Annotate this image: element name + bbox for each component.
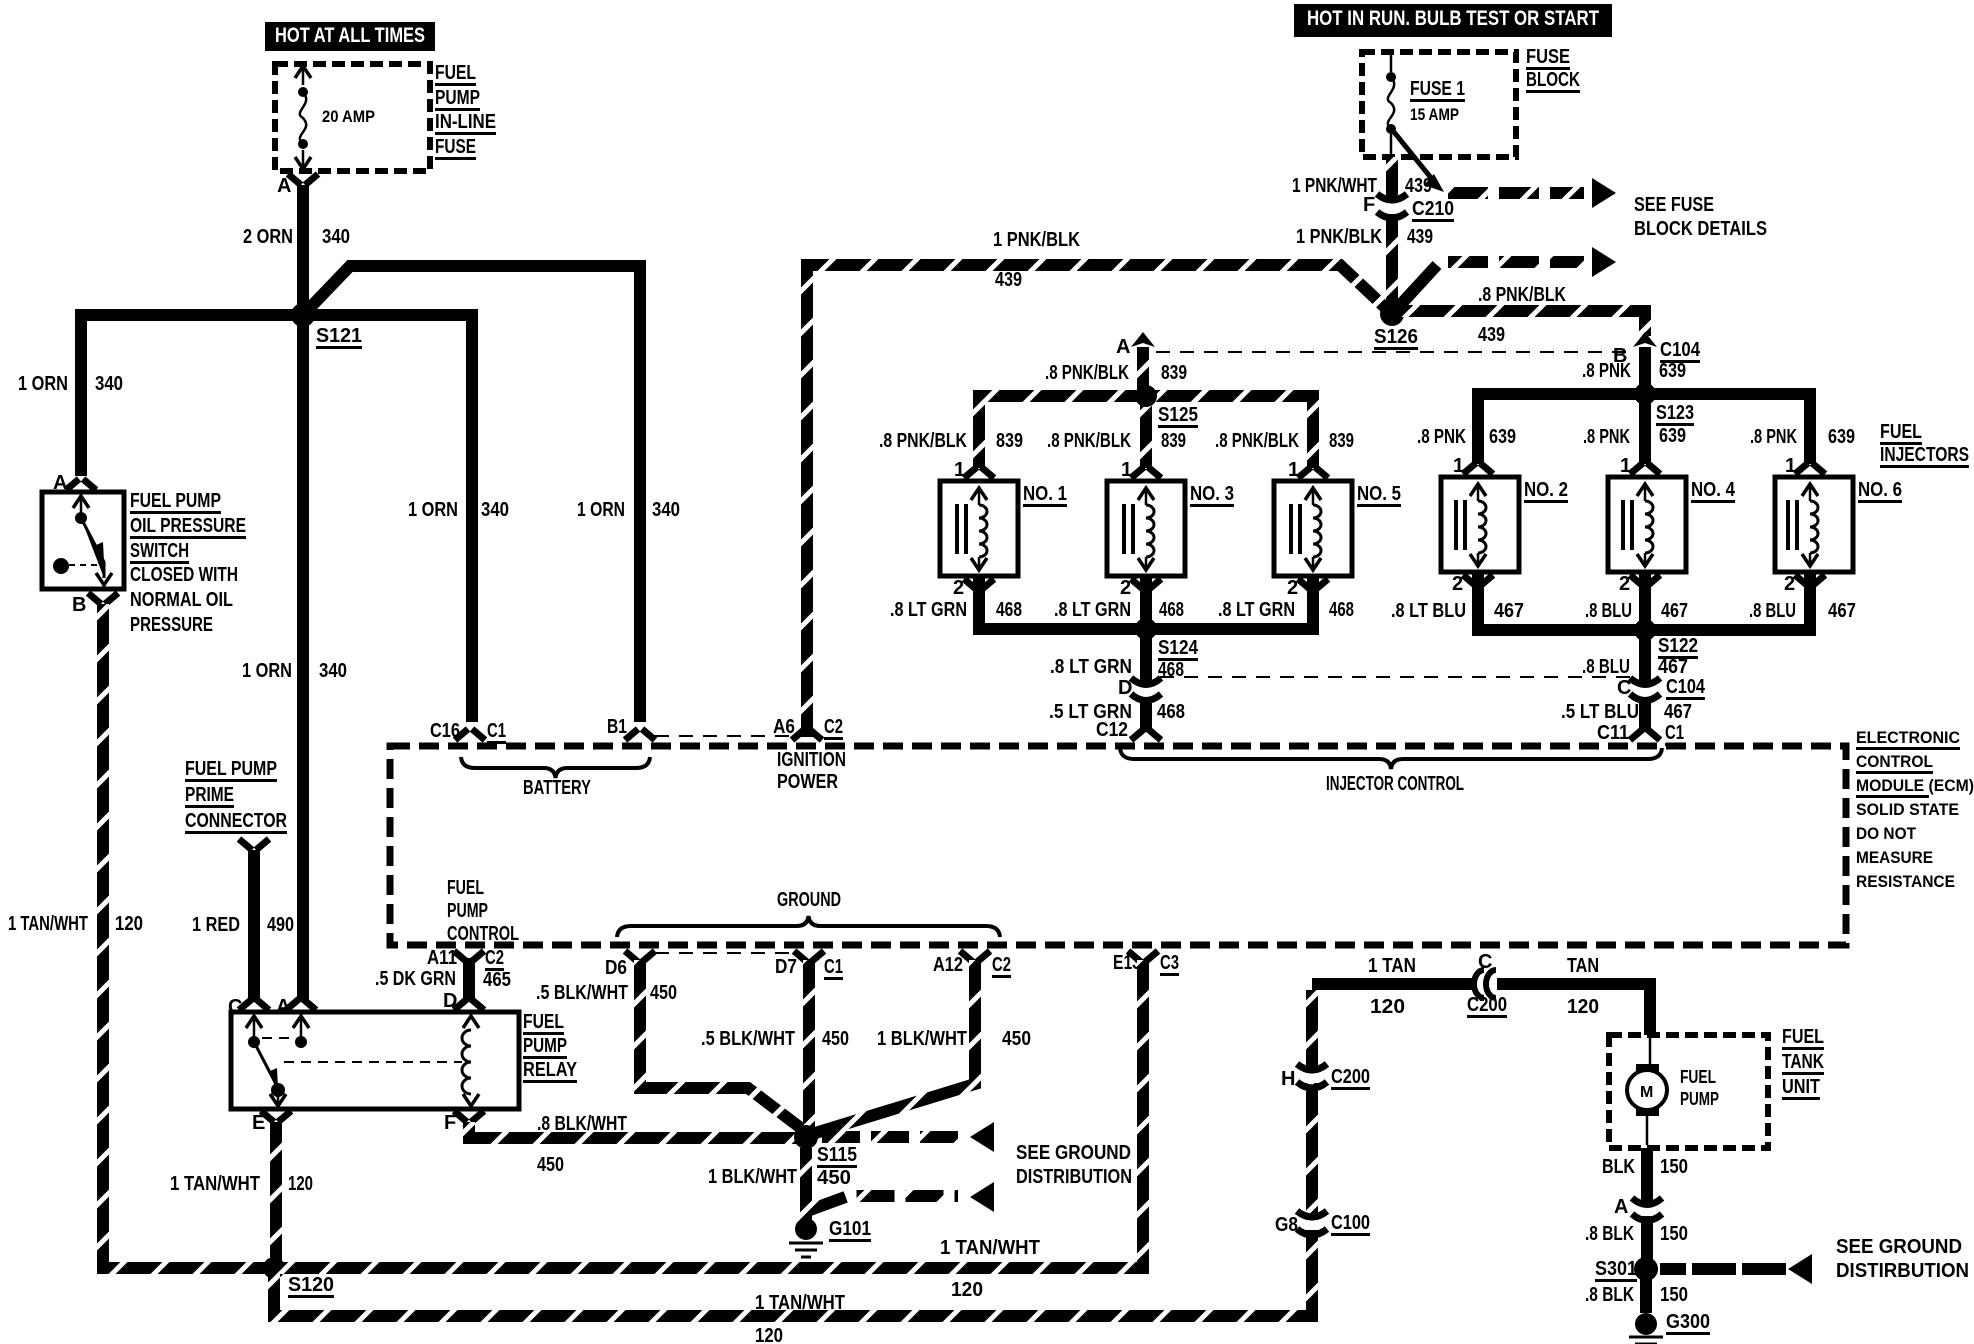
svg-text:.8 PNK/BLK: .8 PNK/BLK	[1047, 430, 1131, 452]
svg-text:FUSE: FUSE	[435, 136, 476, 158]
wire .8 PNK 639 C104 B to S123	[1639, 347, 1651, 394]
connector boundary dash B1-A6	[655, 735, 790, 737]
svg-text:NO. 3: NO. 3	[1190, 483, 1234, 505]
svg-text:C210: C210	[1412, 198, 1454, 220]
svg-text:POWER: POWER	[777, 771, 838, 793]
svg-text:.5 DK GRN: .5 DK GRN	[375, 968, 456, 990]
off-page arrow SEE FUSE BLOCK DETAILS lower	[1448, 256, 1584, 268]
wire .8 BLU S122 down to C104 C	[1639, 630, 1651, 686]
svg-text:A11: A11	[427, 947, 457, 969]
svg-text:1 ORN: 1 ORN	[18, 373, 68, 395]
svg-text:C: C	[1478, 951, 1492, 973]
svg-text:C104: C104	[1660, 339, 1701, 361]
svg-text:G101: G101	[829, 1218, 871, 1240]
svg-text:.8 BLU: .8 BLU	[1582, 656, 1630, 678]
svg-text:1 TAN/WHT: 1 TAN/WHT	[170, 1173, 260, 1195]
svg-text:C2: C2	[824, 716, 843, 738]
svg-text:NO. 1: NO. 1	[1023, 483, 1067, 505]
svg-text:S120: S120	[288, 1274, 334, 1296]
svg-text:1 RED: 1 RED	[192, 914, 240, 936]
svg-text:490: 490	[267, 914, 294, 936]
svg-text:.8 PNK/BLK: .8 PNK/BLK	[879, 430, 967, 452]
svg-text:2: 2	[953, 577, 964, 599]
svg-text:120: 120	[755, 1325, 783, 1344]
wire 1 ORN 340 S121 to B1	[303, 266, 640, 722]
svg-text:A: A	[1116, 336, 1130, 358]
svg-text:B: B	[72, 594, 86, 616]
svg-text:D6: D6	[605, 957, 627, 979]
fuel injector NO2 internals	[1456, 500, 1465, 550]
svg-text:FUEL: FUEL	[447, 877, 484, 899]
connector C104 dashed boundary	[1156, 351, 1632, 353]
wire 1 ORN 340 S121 to C16	[303, 315, 472, 722]
wire .8 PNK/BLK 439 S126 right to C104 B	[1392, 311, 1645, 336]
svg-text:SEE GROUND: SEE GROUND	[1016, 1142, 1131, 1164]
svg-text:NO. 6: NO. 6	[1858, 479, 1902, 501]
svg-text:1: 1	[1288, 459, 1299, 481]
svg-text:M: M	[1640, 1084, 1653, 1101]
svg-text:.8 BLK: .8 BLK	[1585, 1223, 1634, 1245]
svg-text:A12: A12	[933, 954, 963, 976]
brace GROUND	[617, 916, 1000, 937]
fuel injector NO3 internals	[1124, 504, 1133, 554]
svg-text:RELAY: RELAY	[523, 1059, 578, 1081]
svg-text:DISTRIBUTION: DISTRIBUTION	[1016, 1166, 1132, 1188]
svg-text:TANK: TANK	[1782, 1051, 1824, 1073]
wire .5 LT GRN 468 to ECM C12	[1140, 702, 1152, 732]
svg-text:MEASURE: MEASURE	[1856, 848, 1933, 867]
wire 1 ORN 340 S121 to oil pressure switch	[81, 315, 303, 476]
svg-text:439: 439	[1405, 175, 1432, 197]
fuel pump in-line fuse box (dashed)	[275, 64, 430, 171]
splice S121	[291, 303, 315, 327]
svg-text:G8: G8	[1275, 1214, 1298, 1236]
svg-text:1 TAN: 1 TAN	[1368, 955, 1416, 977]
wires .8 LT GRN 468 injectors 1 3 5 to S124 bus	[973, 578, 1319, 629]
wire 2 ORN 340 fuse to S121	[297, 185, 309, 315]
wire 1 BLK/WHT 450 ECM A12 to S115	[812, 960, 975, 1134]
svg-text:S126: S126	[1374, 326, 1418, 348]
svg-text:1 ORN: 1 ORN	[242, 660, 292, 682]
label box HOT AT ALL TIMES	[265, 22, 435, 51]
svg-text:20 AMP: 20 AMP	[322, 107, 375, 126]
brace BATTERY	[461, 757, 650, 778]
svg-text:.8 LT GRN: .8 LT GRN	[1054, 599, 1131, 621]
svg-text:1 BLK/WHT: 1 BLK/WHT	[877, 1028, 967, 1050]
fuel injector NO2 box	[1441, 477, 1519, 572]
wire BLK 150 tank to connector A	[1641, 1148, 1653, 1206]
wire .8 BLK/WHT 450 relay F to S115	[469, 1122, 800, 1138]
svg-text:UNIT: UNIT	[1782, 1076, 1820, 1098]
svg-text:.8 LT GRN: .8 LT GRN	[1218, 599, 1295, 621]
wire 1 PNK/BLK 439 C210 to S126	[1386, 214, 1398, 314]
svg-text:340: 340	[481, 499, 509, 521]
wire 1 TAN 120 to fuel tank unit via C200	[1312, 984, 1650, 1035]
wire .5 LT BLU 467 to ECM C11	[1639, 702, 1651, 732]
svg-text:FUEL: FUEL	[523, 1011, 564, 1033]
svg-text:120: 120	[951, 1279, 983, 1301]
svg-text:SEE GROUND: SEE GROUND	[1836, 1236, 1962, 1258]
svg-text:C1: C1	[487, 720, 506, 742]
svg-text:1: 1	[1620, 455, 1631, 477]
svg-text:.5 LT GRN: .5 LT GRN	[1049, 701, 1132, 723]
svg-text:C3: C3	[1160, 952, 1179, 974]
svg-text:C1: C1	[1665, 722, 1684, 744]
svg-text:H: H	[1281, 1068, 1295, 1090]
svg-text:2: 2	[1619, 573, 1630, 595]
svg-text:120: 120	[288, 1173, 313, 1195]
svg-text:FUSE 1: FUSE 1	[1410, 78, 1465, 100]
svg-text:839: 839	[1161, 430, 1186, 452]
fuel injector NO1 box	[940, 481, 1018, 576]
svg-text:S123: S123	[1656, 402, 1694, 424]
fuel injector NO3 box	[1107, 481, 1185, 576]
svg-text:340: 340	[322, 226, 350, 248]
svg-text:SEE FUSE: SEE FUSE	[1634, 194, 1714, 216]
svg-text:FUEL: FUEL	[1680, 1067, 1716, 1087]
svg-text:1 TAN/WHT: 1 TAN/WHT	[755, 1292, 845, 1314]
svg-text:1 PNK/BLK: 1 PNK/BLK	[993, 229, 1080, 251]
svg-text:1 BLK/WHT: 1 BLK/WHT	[708, 1166, 797, 1188]
relay switch internals	[246, 1016, 262, 1028]
fuel injector NO5 internals	[1291, 504, 1300, 554]
svg-text:FUEL: FUEL	[1880, 421, 1922, 443]
svg-text:1 ORN: 1 ORN	[577, 499, 625, 521]
svg-text:FUEL PUMP: FUEL PUMP	[130, 490, 221, 512]
svg-text:467: 467	[1828, 600, 1856, 622]
svg-text:450: 450	[650, 982, 677, 1004]
svg-text:NO. 5: NO. 5	[1357, 483, 1401, 505]
svg-text:.5 BLK/WHT: .5 BLK/WHT	[536, 982, 628, 1004]
fuel injector NO6 box	[1775, 477, 1853, 572]
svg-text:467: 467	[1658, 656, 1688, 678]
svg-text:.8 PNK: .8 PNK	[1750, 426, 1797, 448]
svg-text:467: 467	[1494, 600, 1524, 622]
svg-text:150: 150	[1660, 1223, 1688, 1245]
connector boundary dash D6-D7	[655, 952, 795, 954]
ground G300	[1635, 1313, 1657, 1335]
svg-text:INJECTOR CONTROL: INJECTOR CONTROL	[1326, 773, 1464, 795]
svg-text:IN-LINE: IN-LINE	[435, 111, 496, 133]
svg-text:468: 468	[1159, 599, 1184, 621]
svg-text:2: 2	[1120, 577, 1131, 599]
svg-text:639: 639	[1489, 426, 1516, 448]
splice S125 and hatched bus to injectors 1 3 5	[973, 390, 1319, 402]
svg-text:SOLID STATE: SOLID STATE	[1856, 800, 1959, 819]
svg-text:FUEL PUMP: FUEL PUMP	[185, 758, 277, 780]
svg-text:120: 120	[1370, 996, 1405, 1018]
svg-text:C104: C104	[1666, 676, 1706, 698]
svg-text:PRESSURE: PRESSURE	[130, 614, 213, 636]
svg-text:RESISTANCE: RESISTANCE	[1856, 872, 1955, 891]
svg-text:CLOSED WITH: CLOSED WITH	[130, 564, 238, 586]
svg-text:NO. 4: NO. 4	[1691, 479, 1736, 501]
svg-text:PUMP: PUMP	[1680, 1089, 1719, 1109]
svg-text:.8 PNK/BLK: .8 PNK/BLK	[1215, 430, 1299, 452]
fuel pump prime connector terminal	[239, 839, 269, 850]
svg-text:120: 120	[1567, 996, 1599, 1018]
svg-text:S125: S125	[1158, 404, 1198, 426]
svg-text:A: A	[1614, 1196, 1628, 1218]
svg-text:639: 639	[1828, 426, 1855, 448]
svg-text:PUMP: PUMP	[523, 1035, 567, 1057]
label box HOT IN RUN BULB TEST OR START	[1294, 4, 1612, 37]
wire .5 BLK/WHT 450 ECM D6 to S115	[640, 960, 810, 1135]
splice S122	[1634, 619, 1656, 641]
svg-text:C2: C2	[992, 954, 1011, 976]
fuel pump motor M	[1647, 1038, 1650, 1145]
svg-text:1: 1	[1453, 455, 1464, 477]
svg-text:.5 LT BLU: .5 LT BLU	[1561, 701, 1639, 723]
svg-text:839: 839	[1161, 362, 1187, 384]
svg-text:340: 340	[319, 660, 347, 682]
fuel tank unit dashed box	[1609, 1035, 1768, 1148]
fuel injector NO4 box	[1608, 477, 1686, 572]
svg-text:BLOCK: BLOCK	[1526, 69, 1580, 91]
fuse 1 element 15 AMP	[1390, 55, 1393, 72]
svg-text:.8 BLK: .8 BLK	[1585, 1284, 1634, 1306]
svg-text:HOT IN RUN. BULB TEST OR START: HOT IN RUN. BULB TEST OR START	[1307, 7, 1599, 30]
svg-text:.8 LT GRN: .8 LT GRN	[890, 599, 967, 621]
ground G101	[795, 1218, 817, 1240]
svg-text:S115: S115	[817, 1144, 857, 1166]
wire diagonal S126 to lower see-fuse arrow	[1392, 265, 1437, 314]
wire .8 BLK 150 to S301	[1641, 1216, 1653, 1268]
in-line connector C200 terminal H	[1304, 1073, 1320, 1083]
svg-text:439: 439	[1478, 324, 1505, 346]
svg-text:.8 PNK: .8 PNK	[1417, 426, 1466, 448]
svg-text:G300: G300	[1666, 1311, 1710, 1333]
svg-text:1 TAN/WHT: 1 TAN/WHT	[8, 913, 88, 935]
svg-text:839: 839	[996, 430, 1023, 452]
svg-text:340: 340	[95, 373, 123, 395]
svg-text:FUEL: FUEL	[1782, 1026, 1824, 1048]
svg-text:BATTERY: BATTERY	[523, 777, 591, 799]
svg-text:.8 PNK/BLK: .8 PNK/BLK	[1045, 362, 1129, 384]
off-page arrow SEE FUSE BLOCK DETAILS upper	[1448, 187, 1584, 199]
fuel pump relay box	[231, 1012, 519, 1109]
svg-text:C100: C100	[1331, 1212, 1370, 1234]
svg-text:2: 2	[1784, 573, 1795, 595]
svg-text:BLOCK DETAILS: BLOCK DETAILS	[1634, 218, 1767, 240]
svg-text:439: 439	[1407, 226, 1433, 248]
svg-text:PRIME: PRIME	[185, 784, 234, 806]
svg-text:450: 450	[1002, 1028, 1031, 1050]
svg-text:PUMP: PUMP	[435, 87, 480, 109]
svg-text:150: 150	[1660, 1156, 1688, 1178]
svg-text:.8 BLU: .8 BLU	[1585, 600, 1632, 622]
svg-text:FUEL: FUEL	[435, 62, 476, 84]
wire 1 RED 490 prime connector to relay C	[248, 850, 260, 1002]
svg-text:B1: B1	[607, 716, 627, 738]
wire 1 TAN/WHT 120 S120 to C100 G8	[274, 990, 1312, 1316]
svg-text:1: 1	[1121, 459, 1132, 481]
svg-text:639: 639	[1659, 425, 1686, 447]
splice S124	[1135, 618, 1157, 640]
svg-text:DISTIRBUTION: DISTIRBUTION	[1836, 1260, 1969, 1282]
wires .8 BLU 467 injectors 2 4 6 to S122 bus	[1472, 574, 1816, 630]
splice S123 and bus to injectors 2 4 6	[1472, 388, 1816, 400]
in-line connector C100 terminal G8	[1304, 1220, 1320, 1230]
fuel injector NO1 internals	[957, 504, 966, 554]
off-page arrow lower SEE GROUND DISTRIBUTION	[810, 1196, 958, 1210]
svg-text:C200: C200	[1467, 994, 1507, 1016]
svg-text:839: 839	[1329, 430, 1354, 452]
wire .8 PNK/BLK 839 C104 A to S125	[1137, 347, 1149, 396]
svg-text:439: 439	[995, 269, 1022, 291]
relay internal dashed link	[262, 1038, 462, 1062]
svg-text:HOT AT ALL TIMES: HOT AT ALL TIMES	[275, 24, 425, 47]
svg-text:15 AMP: 15 AMP	[1410, 105, 1459, 124]
svg-text:639: 639	[1659, 360, 1686, 382]
wire 1 BLK/WHT 450 S115 to G101	[800, 1148, 812, 1222]
svg-text:.8 LT GRN: .8 LT GRN	[1050, 656, 1132, 678]
oil pressure switch internals	[73, 496, 89, 508]
splice S301	[1634, 1257, 1658, 1281]
svg-text:340: 340	[652, 499, 680, 521]
svg-text:1 TAN/WHT: 1 TAN/WHT	[940, 1237, 1040, 1259]
svg-text:PUMP: PUMP	[447, 900, 488, 922]
svg-text:CONTROL: CONTROL	[447, 923, 519, 945]
svg-text:C11: C11	[1597, 722, 1629, 744]
svg-text:450: 450	[537, 1154, 564, 1176]
wire 1 ORN 340 S121 down to fuel pump relay A	[297, 315, 309, 1002]
svg-text:2: 2	[1287, 577, 1298, 599]
svg-text:CONTROL: CONTROL	[1856, 752, 1933, 771]
svg-text:DO NOT: DO NOT	[1856, 824, 1917, 843]
fuse block box (dashed)	[1362, 52, 1516, 157]
fuel injector NO6 internals	[1788, 500, 1797, 550]
wire 1 PNK/BLK 439 S126 left to ECM A6 ignition power	[807, 265, 1392, 737]
wire .8 BLK 150 S301 to G300	[1640, 1269, 1652, 1313]
wire 1 TAN/WHT 120 relay E to S120	[270, 1122, 282, 1268]
svg-text:BLK: BLK	[1602, 1156, 1635, 1178]
fuel pump oil pressure switch box	[42, 492, 124, 589]
svg-text:467: 467	[1661, 600, 1688, 622]
svg-text:465: 465	[483, 969, 511, 991]
svg-text:150: 150	[1660, 1284, 1688, 1306]
svg-text:MODULE (ECM): MODULE (ECM)	[1856, 776, 1974, 795]
svg-text:120: 120	[115, 913, 143, 935]
diagonal branch from fuse 1 to see-fuse-block arrow	[1394, 132, 1436, 184]
svg-text:.5 BLK/WHT: .5 BLK/WHT	[701, 1028, 795, 1050]
in-line fuse element 20 AMP	[302, 67, 305, 168]
fuel injector NO4 internals	[1623, 500, 1632, 550]
wire .5 DK GRN 465 ECM A11 to relay D	[463, 958, 475, 1002]
splice S120	[263, 1257, 285, 1279]
in-line connector C200 terminal C	[1475, 975, 1497, 993]
svg-text:2: 2	[1452, 573, 1463, 595]
connector C104 lower dashed boundary	[1160, 676, 1630, 678]
svg-text:A6: A6	[773, 716, 795, 738]
svg-text:C1: C1	[824, 956, 843, 978]
svg-text:.8 LT BLU: .8 LT BLU	[1391, 600, 1466, 622]
svg-text:S122: S122	[1658, 635, 1698, 657]
svg-text:450: 450	[822, 1028, 849, 1050]
svg-text:.8 BLK/WHT: .8 BLK/WHT	[537, 1113, 627, 1135]
relay coil	[463, 1016, 479, 1028]
wire 1 PNK/WHT 439 fuse 1 to C210	[1386, 157, 1398, 202]
svg-text:INJECTORS: INJECTORS	[1880, 444, 1969, 466]
svg-text:450: 450	[817, 1167, 851, 1189]
svg-text:S301: S301	[1595, 1258, 1637, 1280]
svg-text:CONNECTOR: CONNECTOR	[185, 810, 287, 832]
brace INJECTOR CONTROL	[1120, 748, 1662, 769]
svg-text:FUSE: FUSE	[1526, 46, 1570, 68]
svg-text:1: 1	[954, 459, 965, 481]
svg-text:.8 PNK: .8 PNK	[1583, 426, 1630, 448]
svg-text:TAN: TAN	[1567, 955, 1599, 977]
svg-text:2 ORN: 2 ORN	[243, 226, 293, 248]
svg-text:467: 467	[1664, 701, 1692, 723]
off-page arrow SEE GROUND DISTRIBUTION from S301	[1660, 1263, 1786, 1275]
wire .5 BLK/WHT 450 ECM D7 to S115	[803, 960, 815, 1130]
wire 1 TAN/WHT 120 switch B down-left to S120	[103, 604, 274, 1268]
svg-text:468: 468	[996, 599, 1022, 621]
svg-text:S121: S121	[316, 325, 362, 347]
svg-text:IGNITION: IGNITION	[777, 749, 846, 771]
svg-text:ELECTRONIC: ELECTRONIC	[1856, 728, 1960, 747]
svg-text:SWITCH: SWITCH	[130, 540, 189, 562]
fuel injector NO5 box	[1274, 481, 1352, 576]
svg-text:468: 468	[1329, 599, 1354, 621]
svg-text:GROUND: GROUND	[777, 889, 841, 911]
svg-text:1 ORN: 1 ORN	[408, 499, 458, 521]
svg-text:S124: S124	[1158, 637, 1199, 659]
svg-text:C200: C200	[1331, 1066, 1370, 1088]
svg-text:NO. 2: NO. 2	[1524, 479, 1568, 501]
svg-text:NORMAL OIL: NORMAL OIL	[130, 589, 233, 611]
splice S115	[794, 1125, 818, 1149]
electronic control module ECM dashed box	[390, 746, 1846, 945]
svg-text:.8 PNK/BLK: .8 PNK/BLK	[1478, 284, 1566, 306]
svg-text:C2: C2	[485, 947, 504, 969]
svg-text:.8 BLU: .8 BLU	[1749, 600, 1796, 622]
svg-text:D7: D7	[775, 956, 797, 978]
svg-text:468: 468	[1157, 701, 1185, 723]
wire 1 TAN/WHT 120 S120 to ECM E13	[274, 960, 1143, 1268]
svg-text:OIL PRESSURE: OIL PRESSURE	[130, 515, 246, 537]
svg-text:1 PNK/BLK: 1 PNK/BLK	[1296, 226, 1382, 248]
svg-text:.8 PNK: .8 PNK	[1582, 360, 1631, 382]
svg-text:F: F	[1363, 194, 1375, 216]
wire .8 LT GRN S124 down to C104 D	[1140, 629, 1152, 686]
svg-text:1: 1	[1785, 455, 1796, 477]
off-page arrow SEE GROUND DISTRIBUTION from S115	[822, 1131, 958, 1143]
